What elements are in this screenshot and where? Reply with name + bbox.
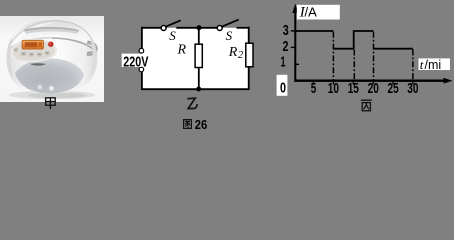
svg-text:1: 1 (281, 55, 286, 71)
svg-text:5: 5 (311, 81, 317, 97)
svg-text:15: 15 (348, 81, 359, 97)
svg-text:/A: /A (305, 4, 318, 19)
svg-text:0: 0 (280, 81, 286, 97)
svg-text:220V: 220V (123, 55, 148, 71)
svg-text:2: 2 (238, 50, 244, 61)
svg-text:30: 30 (407, 81, 418, 97)
svg-text:26: 26 (195, 118, 207, 132)
svg-text:2: 2 (283, 39, 289, 55)
svg-text:R: R (228, 45, 238, 60)
svg-text:/mi: /mi (425, 58, 442, 72)
svg-text:25: 25 (388, 81, 399, 97)
svg-text:20: 20 (368, 81, 379, 97)
svg-text:S: S (169, 28, 176, 43)
svg-text:3: 3 (283, 23, 289, 39)
svg-text:10: 10 (328, 81, 339, 97)
svg-text:S: S (226, 28, 233, 43)
svg-text:R: R (177, 43, 187, 58)
svg-text:t: t (420, 57, 424, 72)
